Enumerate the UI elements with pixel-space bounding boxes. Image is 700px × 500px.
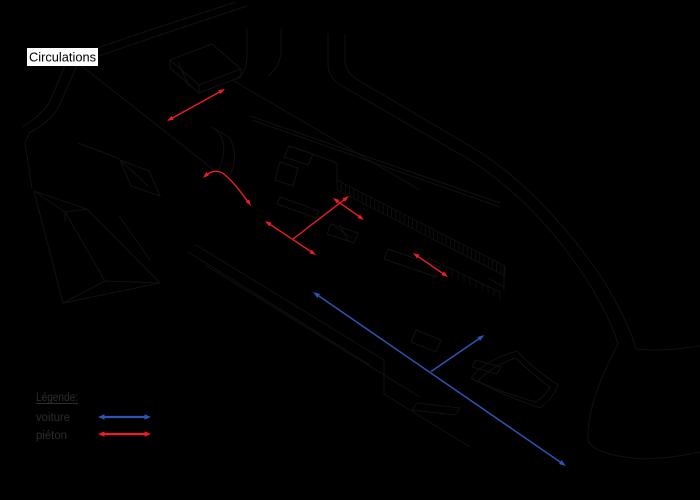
- svg-text:piéton: piéton: [36, 430, 67, 442]
- svg-text:Légende:: Légende:: [36, 392, 78, 404]
- svg-text:voiture: voiture: [36, 412, 70, 424]
- svg-text:Circulations: Circulations: [29, 50, 96, 65]
